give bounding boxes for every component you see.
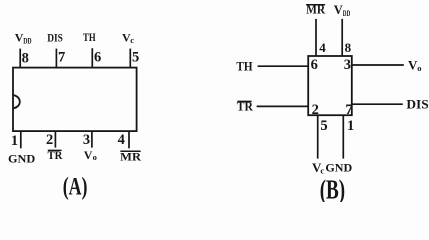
pin 1 wire — [20, 131, 22, 148]
pin 8 wire (B top-right) — [341, 19, 343, 56]
svg-text:GND: GND — [325, 161, 352, 175]
label VDD (pin 8) — [15, 31, 32, 46]
pin 7 wire DIS (B right) — [352, 103, 403, 105]
pin 2 wire — [54, 131, 56, 148]
svg-text:DD: DD — [23, 35, 31, 45]
svg-text:DD: DD — [343, 8, 351, 18]
svg-text:(B): (B) — [320, 174, 345, 202]
IC body U1 (B) functional box — [308, 56, 352, 115]
svg-text:3: 3 — [83, 132, 90, 148]
svg-text:3: 3 — [344, 57, 351, 73]
label Vc (B bottom) — [312, 160, 324, 175]
svg-text:DIS: DIS — [406, 97, 428, 112]
IC body U1 (A) DIP-8 outline — [13, 68, 137, 132]
svg-text:7: 7 — [58, 50, 65, 66]
pin 6 wire TH (B left) — [258, 65, 309, 67]
label VDD (B top) — [334, 3, 351, 18]
svg-text:4: 4 — [118, 132, 125, 148]
pin 3 wire Vo (B right) — [352, 64, 404, 66]
svg-text:5: 5 — [320, 118, 327, 134]
pin 5 wire — [129, 49, 131, 68]
svg-text:6: 6 — [94, 50, 101, 66]
notch (pin-1 end indicator) — [13, 95, 20, 108]
svg-text:o: o — [93, 152, 97, 162]
pin 4 wire (B top-left) — [315, 19, 317, 56]
svg-text:5: 5 — [132, 50, 139, 66]
svg-text:7: 7 — [345, 102, 352, 118]
label Vc (pin 5) — [122, 31, 134, 46]
label MR-bar (pin 4) — [120, 149, 141, 163]
pin 4 wire — [128, 131, 130, 148]
svg-text:4: 4 — [319, 40, 326, 55]
label TR-bar (pin 2) — [48, 148, 63, 162]
pin 2 wire TR (B left) — [257, 105, 309, 107]
svg-text:2: 2 — [46, 132, 53, 148]
svg-text:6: 6 — [311, 57, 318, 73]
label Vo (pin 3) — [84, 148, 97, 162]
pin 3 wire — [91, 131, 93, 148]
pin 1 wire (B bottom-right) — [342, 115, 344, 158]
svg-text:1: 1 — [347, 118, 354, 134]
pin 5 wire (B bottom-left) — [317, 115, 319, 158]
svg-text:V: V — [84, 148, 93, 162]
label MR-bar (B top) — [306, 2, 326, 16]
svg-text:1: 1 — [11, 133, 18, 149]
svg-text:TH: TH — [236, 60, 252, 74]
svg-text:8: 8 — [345, 40, 352, 55]
svg-text:c: c — [130, 35, 134, 45]
svg-text:o: o — [417, 63, 421, 73]
svg-text:(A): (A) — [63, 172, 88, 201]
pin 6 wire — [91, 48, 93, 67]
svg-text:TH: TH — [83, 30, 96, 44]
label TR-bar (B left) — [237, 100, 254, 114]
label Vo (B right) — [408, 58, 421, 73]
pin 7 wire — [55, 49, 57, 68]
svg-text:V: V — [334, 3, 343, 17]
svg-text:8: 8 — [22, 51, 29, 67]
pin 8 wire — [19, 49, 21, 68]
svg-text:DIS: DIS — [47, 31, 63, 45]
svg-text:GND: GND — [8, 151, 36, 165]
